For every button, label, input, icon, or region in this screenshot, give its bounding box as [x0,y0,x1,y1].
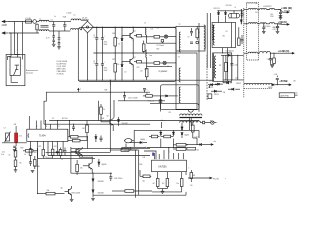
box bottom right corner [196,103,199,106]
-12V diode D15 [228,54,238,56]
rectifier D13 [215,83,223,85]
svg-text:Cx: Cx [54,16,56,18]
svg-text:1.5к: 1.5к [140,71,143,73]
svg-text:ПВ 10к/2Вт: ПВ 10к/2Вт [72,193,81,195]
svg-text:L4: L4 [235,7,237,9]
svg-text:КД213: КД213 [185,134,190,136]
svg-text:C 4.7u: C 4.7u [195,137,200,139]
-12V cap C17 [230,55,237,80]
svg-text:2200: 2200 [270,16,274,18]
rail +5V choke2 [260,23,278,24]
svg-text:200V: 200V [104,70,109,72]
label Q1 Q2 [134,31,136,59]
sense vertical b [190,122,192,125]
svg-text:D22 D23: D22 D23 [214,8,220,10]
primary section box [78,28,176,82]
label C5 C6 [94,37,96,65]
svg-text:0.1мкФ: 0.1мкФ [67,12,73,15]
label C36b [140,164,143,166]
primary mid rail [93,52,176,54]
ground Q5 [70,199,74,201]
thermistor NTC [32,20,40,24]
svg-text:+C49: +C49 [274,74,278,76]
svg-text:C31 2200: C31 2200 [273,29,279,31]
svg-text:R30: R30 [21,148,24,150]
rail +3.3V res R10 [273,53,276,64]
svg-text:Q6: Q6 [61,188,63,190]
sense wire 1 [150,120,199,122]
svg-text:L2: L2 [74,15,76,17]
capacitor C1 [93,27,98,53]
svg-text:C1: C1 [93,35,95,37]
svg-text:1N4148: 1N4148 [98,192,104,194]
rail +5V cap C15 [276,23,282,31]
base drive wire 2 [99,101,165,121]
ground D23 [91,198,95,200]
-12V rect wire [221,51,244,56]
resistor R21s [154,36,164,39]
label above choke [246,2,258,5]
ground C25 [31,171,35,173]
diode D26 [181,133,189,139]
svg-text:+5в: +5в [213,141,216,143]
capacitor C12 [241,11,244,18]
wire 5v label [161,120,164,128]
svg-text:ДЕЖУРКА: ДЕЖУРКА [280,94,289,97]
secondary box upper [212,23,236,48]
svg-text:+3.3В (О): +3.3В (О) [278,49,290,53]
svg-text:2k: 2k [9,154,11,156]
resistor R19 [9,148,17,157]
resistor R5 horizontal [133,60,141,80]
resistor R26 [192,122,198,145]
label bot left [1,154,21,165]
label near Q5 [61,188,63,190]
svg-text:4.7n: 4.7n [46,38,50,40]
coupling inductor L3 [144,22,153,37]
svg-text:+5В (К): +5В (К) [278,20,287,24]
label C4.7u [195,137,200,139]
wire drop to switch 1 [10,32,12,34]
svg-text:+5VSB: +5VSB [279,79,287,83]
svg-text:FR155: FR155 [208,87,213,89]
svg-text:L3: L3 [144,22,146,24]
svg-text:C41 1000: C41 1000 [226,5,232,7]
svg-text:470u: 470u [104,42,108,44]
resistor R48 below IC [59,148,62,159]
svg-text:Q1: Q1 [134,31,136,33]
filter choke L2 top [71,15,81,21]
svg-text:47u/63В: 47u/63В [34,166,40,168]
svg-text:L1: L1 [40,18,42,20]
wire base Q5 [37,193,46,194]
resistor R31 [187,147,196,150]
wire bridge bottom return [87,33,89,80]
blue watermark [152,153,154,156]
dashed core line secondary [206,55,208,100]
ground R20 [14,170,18,172]
svg-text:Q3: Q3 [107,116,109,118]
rectifier D12 [208,84,217,90]
rail +5V out arrow [278,23,290,25]
resistor R22 [46,190,65,195]
svg-text:S1: S1 [226,31,228,33]
wire row1b [147,37,177,43]
rail +5VSB cap [274,74,279,85]
svg-text:C20 1н/100В: C20 1н/100В [128,97,137,99]
junction dots secondary box [222,48,228,54]
T1 right winding [204,25,206,49]
Y-capacitor C3 [46,38,55,45]
label lm area [143,157,190,169]
rectifier D11 [224,10,226,22]
label minus12 [235,78,238,80]
resistor R13 [82,121,88,141]
wire to -5V [130,142,140,144]
svg-text:510: 510 [190,185,193,187]
svg-text:+: + [104,62,105,64]
svg-text:C16: C16 [45,157,48,159]
middle box right part [150,23,199,112]
svg-text:W2: W2 [219,65,221,67]
ground Y-caps 2 [57,47,61,49]
resistor R18b on wire [122,147,131,150]
label power switch [26,70,38,75]
svg-text:T5A: T5A [63,16,67,19]
svg-text:(Ф): (Ф) [294,80,297,83]
auxiliary core bar [180,117,203,119]
label C4 value [104,68,109,72]
svg-text:C30: C30 [270,14,273,16]
transformer T1 box [176,26,205,51]
svg-text:1N4148: 1N4148 [122,123,128,125]
connector stub box [208,94,212,99]
svg-text:4.7k: 4.7k [19,136,22,138]
svg-text:W1: W1 [223,36,225,38]
wire AC live [8,21,26,23]
resistor R3 [142,41,145,54]
primary bottom bus [78,79,213,81]
resistor R22s [154,62,163,65]
wire secondary junction [233,10,234,11]
label mid T [188,32,201,38]
labels sec top [226,5,237,9]
driver diode D19 [117,117,127,126]
ground Y-caps [52,44,56,46]
svg-text:3.9к: 3.9к [1,154,4,156]
long return wire [93,192,186,195]
svg-text:C6: C6 [94,63,96,65]
rail +5V wire [258,23,265,24]
rail +12V cap C13 [277,9,282,17]
svg-text:СК 1.5мкФ: СК 1.5мкФ [157,44,165,47]
svg-text:W3: W3 [169,112,171,114]
svg-text:12В: 12В [143,157,146,159]
bridge rectifier D1-D4 [82,18,94,33]
fuse F1 [26,17,32,23]
vertical right of IC [67,129,69,141]
label ps area [190,185,193,187]
label under R33 [0,0,1,1]
wire bridge output bus [93,26,176,28]
wire vert x160 [160,95,161,100]
resistor R21 [34,156,37,169]
resistor R27 [149,135,160,138]
rail 5VSB dashes [244,87,272,89]
rail +3.3V out [270,53,280,54]
transistor Q5 [65,186,72,199]
svg-text:-5В(Б): -5В(Б) [140,139,146,141]
svg-text:1: 1 [31,146,32,148]
svg-text:FR302: FR302 [236,83,241,85]
transformer T1 primary winding [179,32,180,52]
svg-text:1k: 1k [146,93,148,95]
cap C22 [13,146,17,152]
secondary box upper winding [213,25,214,45]
svg-text:470u: 470u [104,68,108,70]
transformer T2 box [176,53,197,109]
rail +12V wire [258,9,269,10]
label snub3 [145,69,148,71]
svg-text:C23 1000u: C23 1000u [263,26,271,28]
long vertical to Q5 [37,148,39,194]
wire y192 [152,191,182,193]
rail +5VSB out arrow [289,84,291,86]
svg-text:ОС: ОС [52,118,55,120]
transistor Q2 [122,53,133,67]
Y-capacitor C4 pair [58,31,61,47]
rail +3.3V cap C16 [269,53,272,64]
ground rail1 [279,17,283,19]
label +12V [281,6,292,12]
small diode D20 [95,134,97,142]
wire mid feedback corner [134,130,199,147]
bottom long wire [70,147,72,173]
svg-text:C9: C9 [188,36,190,38]
label tr driver [158,70,167,73]
IC right caps [72,124,75,131]
svg-text:R11: R11 [137,67,140,69]
svg-text:R10: R10 [117,64,120,66]
resistor R17 [51,149,54,158]
base drive wire upper [44,92,150,124]
svg-text:R27: R27 [112,59,115,61]
resistor R18 on wire [110,149,137,152]
resistor R34 [166,179,169,189]
wire stub b [168,147,169,153]
svg-text:HL: HL [210,121,212,123]
capacitor C4b [101,53,105,80]
common-mode choke L1 top winding [39,20,49,21]
label +5VSB [279,79,296,83]
svg-text:R9: R9 [117,38,119,40]
ground rail2 cap a [262,32,266,34]
capacitor C23 [47,150,59,159]
diode D21 [98,159,107,167]
wire C5 to L2 [64,22,71,32]
resistor R24b [29,148,36,159]
transistor Q8 [79,157,93,174]
label sec box [219,36,225,68]
transformer T2 winding left [179,68,180,82]
-12V column left line [223,55,238,80]
svg-text:C45: C45 [235,65,238,67]
wire top rail bottom section [71,148,150,150]
svg-text:12: 12 [58,126,60,128]
svg-text:(Ф): (Ф) [295,92,298,95]
rail +5VSB choke [244,83,272,84]
svg-text:R31: R31 [39,146,42,148]
svg-text:T1: T1 [179,24,181,26]
svg-text:FR155: FR155 [214,94,219,96]
svg-text:C21: C21 [2,152,5,154]
svg-text:+: + [104,36,105,38]
lamp HL1 [164,35,176,38]
svg-text:+5В: +5В [13,124,16,126]
svg-text:R22: R22 [157,49,160,51]
-12V diode D17 [228,88,240,90]
T1 internal parts [190,41,199,44]
feedback bus 1 [49,120,150,122]
transistor Q4 [75,147,82,157]
label +3.3V [278,49,290,53]
svg-text:R61: R61 [193,175,196,177]
T1 internal resistor [196,26,199,40]
svg-text:1k2: 1k2 [162,183,165,185]
svg-text:КД: КД [143,181,145,183]
label T1 [178,24,181,59]
IC pins bottom [31,141,64,158]
rail +5V cap C14 [262,24,265,31]
test point arrow [78,88,81,92]
resistor R28 [161,135,173,138]
T1 internal cap [190,28,193,36]
bus corner drop [69,120,70,137]
LM339 pins bottom [158,172,186,179]
wire row2 join [186,144,187,146]
standby label box [279,92,298,98]
rectifier D14 [211,90,222,96]
label minus5 [223,92,225,94]
svg-text:R45: R45 [102,118,105,120]
rail +5VSB diode [268,84,290,89]
lamp HL2 [163,61,176,64]
AC line terminal arrows and 220V label [2,20,9,34]
rail +12V choke2 [260,8,281,9]
diode D24 [140,141,147,143]
IC pin top 1 [28,116,30,129]
transformer core lines [207,13,210,68]
resistor R16 [42,150,45,159]
T1 secondary winding lower [212,54,213,82]
standby winding row [180,121,201,123]
LM339 pins top [154,150,183,159]
svg-text:1мк: 1мк [149,55,152,57]
wire q1 base stubs [121,36,123,65]
-12V res R11 [225,55,228,81]
resistor R40 [68,139,88,142]
svg-text:TL494: TL494 [39,136,46,138]
svg-text:D2: D2 [125,71,127,73]
bottom wire resistor R24 [112,190,152,193]
resistor R30 [173,148,186,151]
transistor Q7 [71,148,79,157]
diode D27 [160,130,162,137]
svg-text:PS-ON: PS-ON [213,178,219,180]
X-capacitor C1 [51,19,56,31]
rail +5V choke [244,23,258,24]
label L5 [263,5,272,8]
svg-text:10k: 10k [47,190,50,192]
resistor R4 [112,53,116,80]
varistor RV1 [36,24,38,34]
label under LM [153,183,180,185]
label C30 r1 [270,14,274,18]
svg-text:4: 4 [189,168,190,170]
vertical pair bottom right block [124,150,139,198]
svg-text:Q1,Q2 13007: Q1,Q2 13007 [57,66,67,68]
svg-text:D1: D1 [118,44,120,46]
svg-text:560: 560 [197,149,200,151]
resistor R23s [140,66,148,80]
svg-text:R: R [199,32,201,34]
svg-text:T1 ERL35: T1 ERL35 [57,74,64,76]
ground rail2 cap b [276,31,280,33]
wire stub d [198,130,200,138]
sense vertical a [182,118,191,130]
label C30 [255,12,271,28]
transformer T2 winding left lower [179,87,180,103]
capacitor C3 [93,53,98,80]
rail +12V choke [244,8,258,9]
auxiliary winding row [180,114,202,116]
label aux [169,112,213,123]
label +5V [278,20,287,24]
svg-text:ТР ДРАЙВЕР: ТР ДРАЙВЕР [158,70,167,73]
svg-text:C7: C7 [4,128,6,130]
svg-text:C 1.5мкФ: C 1.5мкФ [148,100,155,103]
dashed separator line [243,8,245,98]
svg-text:R26: R26 [112,33,115,35]
label C2 value [104,42,109,46]
label q3 [107,116,109,118]
top long vertical [109,80,111,85]
ground 3.3V [267,59,274,68]
svg-text:C38 330: C38 330 [267,59,273,61]
common-mode choke L1 bottom winding [39,30,49,31]
small parts right of T2 core [210,81,212,89]
resistor R39 [68,136,88,139]
resistor R15 [23,150,38,157]
svg-text:D1-D4 1N5408: D1-D4 1N5408 [57,61,68,63]
label bottom [72,193,81,195]
svg-text:FR302: FR302 [268,87,273,89]
feedback bus 2 [44,123,150,125]
svg-text:C30: C30 [255,12,258,14]
secondary top wire [217,10,243,12]
choke cylinder [229,11,240,18]
resistor R14 red [13,124,22,142]
diode D5 [118,27,123,53]
svg-text:R33: R33 [54,146,57,148]
IC U2 LM339 [152,160,187,171]
IC U1 TL494 [27,129,68,141]
label red wire [273,26,280,31]
svg-text:1N4148: 1N4148 [98,181,104,183]
label sec diodes [214,8,220,10]
label drossel [229,18,231,20]
Y-capacitor C2 [52,31,55,40]
